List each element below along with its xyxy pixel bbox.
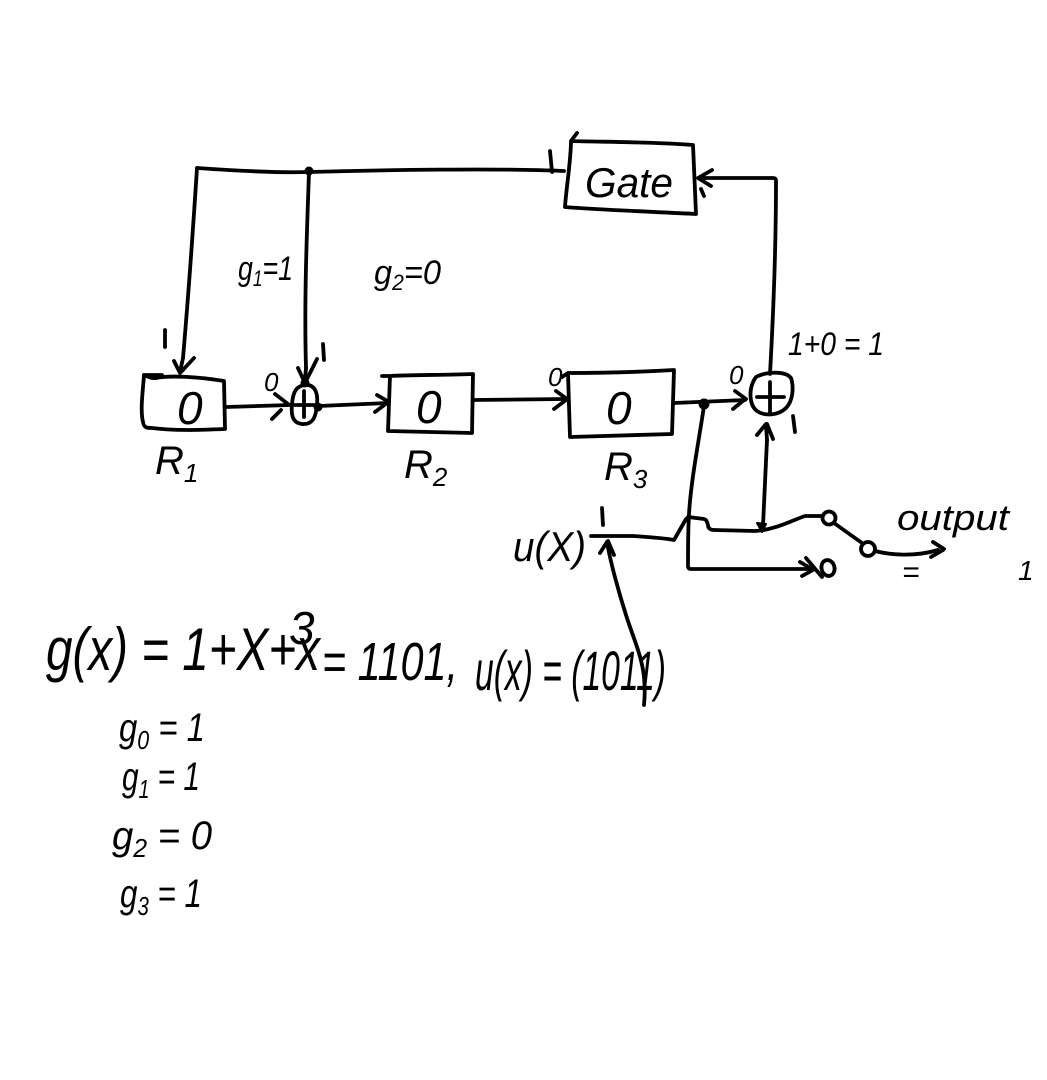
svg-text:0: 0 bbox=[177, 382, 203, 434]
svg-text:3: 3 bbox=[289, 602, 315, 654]
svg-text:0: 0 bbox=[606, 382, 632, 434]
svg-text:0: 0 bbox=[264, 367, 279, 397]
svg-text:output: output bbox=[897, 497, 1011, 538]
svg-text:Gate: Gate bbox=[585, 159, 673, 206]
svg-text:1+0 = 1: 1+0 = 1 bbox=[788, 326, 884, 362]
svg-text:=: = bbox=[902, 556, 920, 589]
svg-text:g0 = 1: g0 = 1 bbox=[119, 706, 205, 755]
svg-text:0: 0 bbox=[729, 360, 744, 390]
svg-text:g2 = 0: g2 = 0 bbox=[112, 814, 212, 863]
svg-text:0: 0 bbox=[548, 362, 563, 392]
svg-text:u(x) = (1011): u(x) = (1011) bbox=[475, 639, 666, 702]
svg-text:u(X): u(X) bbox=[513, 523, 586, 570]
svg-text:g1=1: g1=1 bbox=[238, 250, 293, 291]
svg-text:= 1101,: = 1101, bbox=[322, 632, 458, 692]
svg-text:0: 0 bbox=[416, 381, 442, 433]
svg-text:g3 = 1: g3 = 1 bbox=[120, 872, 202, 921]
svg-text:1: 1 bbox=[1018, 555, 1034, 586]
svg-text:g(x) = 1+X+x: g(x) = 1+X+x bbox=[46, 616, 322, 683]
svg-text:g1 = 1: g1 = 1 bbox=[122, 755, 200, 804]
svg-text:g2=0: g2=0 bbox=[374, 254, 441, 295]
